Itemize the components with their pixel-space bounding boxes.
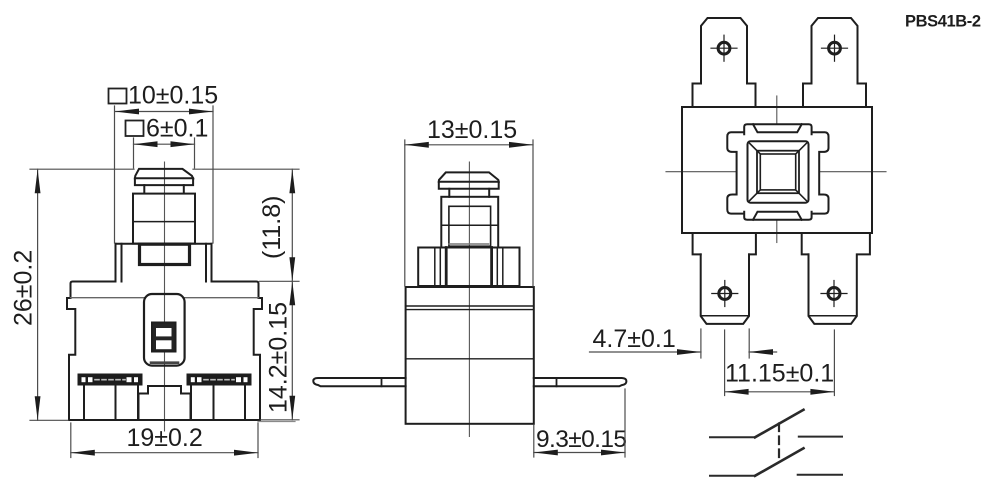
ext line 13 left — [404, 140, 406, 286]
button cap side dome — [439, 172, 499, 181]
terminal bottom-left blade — [701, 254, 749, 324]
centerline axis side view — [468, 162, 470, 437]
button shaft front — [133, 194, 195, 244]
dim 26 vertical line — [37, 169, 39, 420]
terminal bottom-left hole — [719, 288, 731, 300]
terminal bottom-right base — [802, 233, 870, 254]
cap brim band side — [439, 182, 499, 189]
button inner square — [757, 151, 799, 194]
ext line 19 right — [257, 423, 259, 458]
terminal bottom-right hole — [828, 288, 840, 300]
collar block — [140, 244, 190, 264]
stray bottom line — [258, 421, 295, 423]
svg-text:10±0.15: 10±0.15 — [128, 82, 218, 110]
svg-text:26±0.2: 26±0.2 — [10, 250, 38, 326]
button innermost square — [760, 154, 795, 190]
shaft inner bottom gray — [449, 243, 489, 245]
pole2 left lead — [710, 475, 755, 477]
body box side — [406, 287, 534, 424]
dim line 9.3 — [534, 452, 625, 454]
terminal top-right blade — [812, 18, 858, 84]
plunger guide rounded rect — [144, 294, 185, 366]
button outer square — [748, 141, 809, 203]
pole2 right contact lead — [798, 474, 842, 476]
dim leader 4.7 left — [590, 351, 702, 353]
ext 11.15 right — [833, 330, 835, 396]
centerline axis front view — [164, 162, 166, 431]
dim 14.2 vertical line — [291, 281, 293, 420]
shaft side outer — [441, 197, 498, 248]
svg-text:PBS41B-2: PBS41B-2 — [905, 13, 981, 31]
solder tab right — [534, 378, 627, 386]
flange inner wall right — [205, 244, 207, 282]
terminal strip right — [188, 375, 251, 385]
collar box side — [418, 248, 519, 287]
leg lines right — [190, 385, 192, 421]
contact window slot lower — [156, 340, 172, 349]
body double line — [406, 305, 534, 307]
terminal top-right base — [803, 84, 866, 108]
ext line 9.3 right — [624, 389, 626, 457]
terminal bottom-left base — [693, 233, 756, 254]
pole1 blade — [755, 410, 804, 438]
castle bottom trapezoid — [753, 212, 802, 220]
tab tick left — [381, 378, 383, 386]
ext 4.7 left — [700, 329, 702, 358]
ext line shoulder right — [260, 280, 300, 282]
terminal bottom-right blade — [809, 254, 857, 324]
flange inner wall left — [121, 244, 123, 282]
dim square10 symbol — [109, 89, 127, 104]
terminal top-right hole — [829, 42, 841, 54]
contact window frame — [152, 323, 176, 352]
cap lip sides — [448, 189, 450, 197]
body top shoulder right — [212, 282, 263, 421]
ext line 19 left — [70, 423, 72, 458]
svg-text:9.3±0.15: 9.3±0.15 — [536, 426, 626, 453]
dim line 11.15 — [725, 391, 835, 393]
ext line 6 right — [194, 138, 196, 168]
body rect top view — [682, 107, 872, 233]
button chamfer diagonals — [750, 143, 807, 201]
collar rib lines — [434, 248, 436, 287]
pedestal center — [139, 386, 191, 420]
ext line bottom left — [30, 419, 68, 421]
svg-text:14.2±0.15: 14.2±0.15 — [265, 302, 293, 413]
flange outer wall right — [211, 244, 213, 282]
pole1 left lead — [710, 436, 755, 438]
svg-text:11.15±0.1: 11.15±0.1 — [725, 360, 834, 388]
svg-text:19±0.2: 19±0.2 — [127, 424, 203, 452]
pole1 right contact lead — [799, 436, 842, 438]
ext 11.15 left — [724, 330, 726, 396]
guide bottom shade — [151, 361, 178, 364]
dim 11.8 vertical line — [291, 169, 293, 281]
ext line 6 left — [133, 138, 135, 168]
svg-text:(11.8): (11.8) — [258, 196, 286, 259]
button cap front dome — [135, 169, 193, 178]
ext line top cap — [30, 168, 134, 170]
dim line 10 — [115, 111, 213, 113]
leg lines left — [83, 385, 85, 421]
ext line 13 right — [532, 140, 534, 286]
contact window slot upper — [156, 328, 172, 336]
svg-text:4.7±0.1: 4.7±0.1 — [593, 325, 676, 353]
ext line 10 left — [114, 106, 116, 243]
dim line 13 — [405, 144, 533, 146]
solder tab left — [313, 378, 405, 386]
horizontal axis left — [666, 171, 736, 173]
terminal top-left blade — [701, 18, 747, 84]
flange castle outline — [727, 124, 828, 220]
body bottom edge — [69, 419, 260, 421]
ext 4.7 right — [748, 329, 750, 358]
svg-text:13±0.15: 13±0.15 — [427, 116, 517, 144]
internal line across body — [71, 297, 145, 299]
castle top trapezoid — [753, 124, 802, 132]
vertical axis bottom — [776, 221, 778, 243]
cap neck — [143, 185, 145, 193]
body mid line — [406, 358, 534, 360]
shaft side inner rect — [449, 206, 491, 246]
dim line 19 — [71, 452, 258, 454]
pole2 blade — [755, 448, 804, 476]
shaft side inner hline — [441, 224, 498, 226]
ext line 10 right — [212, 106, 214, 243]
horizontal axis right — [819, 171, 886, 173]
flange outer wall left — [115, 244, 117, 282]
tab tick right — [556, 378, 558, 386]
ext line cap right — [193, 168, 299, 170]
terminal top-left hole — [718, 42, 730, 54]
dim line 6 — [134, 143, 195, 145]
dim leader 4.7 right — [749, 351, 777, 353]
terminal strip left — [79, 375, 142, 385]
flange shoulder — [116, 243, 212, 245]
body top shoulder left — [67, 282, 116, 421]
vertical axis top — [776, 96, 778, 123]
ext line bottom right — [261, 419, 299, 421]
terminal bottom-left tip line — [701, 315, 749, 317]
svg-text:6±0.1: 6±0.1 — [146, 115, 208, 143]
ext line 9.3 left — [533, 425, 535, 457]
dim square6 symbol — [126, 121, 144, 137]
terminal top-left base — [693, 84, 756, 108]
shaft inner line — [133, 221, 195, 223]
coupling dashed line — [778, 424, 780, 462]
terminal bottom-right tip line — [809, 315, 857, 317]
cap brim band — [135, 178, 193, 185]
